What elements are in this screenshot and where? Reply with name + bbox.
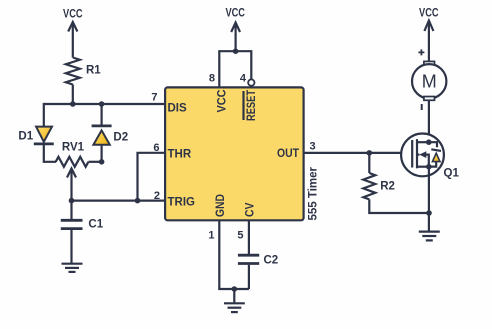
wire RV1 right to D2 — [88, 161, 101, 163]
svg-text:OUT: OUT — [277, 148, 299, 160]
wire TRIG net (wiper to pin 2) — [72, 200, 166, 202]
op 555 timer U1 body — [165, 87, 304, 220]
wire D2 bottom lead — [100, 145, 102, 162]
junction wiper/C1/TRIG — [69, 198, 75, 204]
svg-text:VCC: VCC — [419, 8, 439, 20]
svg-text:7: 7 — [151, 92, 157, 104]
transistor Q1 label — [444, 168, 460, 180]
motor M1 top terminal — [424, 61, 435, 65]
transistor Q1 source branch — [417, 166, 429, 168]
pin 5 CV name (rotated) — [245, 202, 257, 217]
svg-text:4: 4 — [240, 73, 247, 85]
resistor R1 label — [86, 65, 101, 77]
transistor Q1 body diode triangle — [432, 153, 440, 161]
motor plus sign — [418, 49, 424, 55]
potentiometer RV1 label — [62, 142, 85, 154]
wire motor to Q1 drain — [428, 100, 430, 142]
transistor Q1 gate bar — [411, 140, 413, 168]
junction R2/source net — [426, 210, 432, 216]
wire R2 bottom to source net — [369, 199, 429, 213]
wire R1 bottom to node — [72, 85, 74, 105]
diode D2 label — [113, 132, 128, 144]
svg-text:D2: D2 — [113, 132, 128, 144]
resistor R1 body — [66, 58, 80, 85]
pin 1 number label — [208, 230, 214, 242]
junction OUT/R2 — [367, 150, 373, 156]
svg-text:RESET: RESET — [246, 90, 258, 121]
pin 1 GND name (rotated) — [215, 194, 227, 217]
wire D2 top lead — [100, 104, 102, 125]
svg-text:D1: D1 — [18, 131, 33, 143]
svg-text:C1: C1 — [88, 219, 103, 231]
svg-text:8: 8 — [209, 73, 215, 85]
wire VCC to pins 8 and 4 — [219, 51, 251, 87]
motor minus sign — [421, 104, 423, 110]
potentiometer RV1 wiper arrow — [67, 169, 76, 201]
pin 4 inversion bubble — [248, 79, 254, 85]
svg-text:R1: R1 — [86, 65, 101, 77]
power flag VCC (top center) label — [225, 8, 245, 20]
power flag VCC (left rail) label — [63, 9, 83, 21]
svg-text:555 Timer: 555 Timer — [308, 166, 320, 220]
junction RV1/D2 — [99, 159, 105, 165]
svg-text:VCC: VCC — [63, 9, 83, 21]
wire OUT net (pin 3 to gate, through R2 node) — [304, 152, 413, 154]
transistor Q1 body diode top lead — [429, 142, 437, 147]
svg-text:R2: R2 — [380, 181, 395, 193]
capacitor C1 — [61, 220, 83, 228]
wire D1 to RV1 — [44, 144, 56, 162]
svg-text:3: 3 — [310, 141, 316, 153]
svg-text:VCC: VCC — [217, 90, 229, 113]
diode D2 — [92, 126, 112, 145]
svg-text:VCC: VCC — [225, 8, 245, 20]
junction THR/TRIG — [135, 198, 141, 204]
junction VCC arrow/pin8/pin4 — [233, 48, 239, 54]
junction D2/top net — [99, 101, 105, 107]
pin 6 THR name — [168, 149, 192, 161]
diode D1 — [34, 127, 54, 144]
pin 4 number label — [240, 73, 247, 85]
ground (left, under C1) — [62, 264, 83, 272]
junction gnd net — [232, 286, 238, 292]
svg-text:DIS: DIS — [168, 103, 188, 115]
power flag VCC (right rail) label — [419, 8, 439, 20]
svg-text:6: 6 — [153, 142, 159, 154]
svg-text:1: 1 — [208, 230, 214, 242]
svg-text:RV1: RV1 — [62, 142, 85, 154]
capacitor C2 label — [264, 255, 279, 267]
transistor Q1 body diode cathode bar — [431, 149, 441, 151]
pin 8 VCC name (rotated) — [217, 90, 229, 113]
junction Q1 drain dot — [426, 139, 432, 145]
svg-text:M: M — [422, 71, 437, 91]
svg-text:TRIG: TRIG — [168, 197, 196, 209]
capacitor C2 — [238, 255, 259, 263]
transistor Q1 body circle — [401, 134, 444, 177]
resistor R2 body — [363, 173, 375, 199]
junction Q1 source dot — [426, 164, 432, 170]
svg-text:5: 5 — [237, 230, 243, 242]
pin 2 TRIG name — [168, 197, 196, 209]
svg-text:2: 2 — [154, 190, 160, 202]
junction R1/top net — [70, 101, 76, 107]
motor M1 bottom terminal — [424, 97, 435, 101]
pin 6 number label — [153, 142, 159, 154]
wire TRIG junction down to C1 — [70, 201, 72, 219]
wire gnd stem — [233, 289, 235, 303]
power flag VCC (right rail) arrow — [424, 21, 433, 62]
wire R2 top lead — [368, 153, 370, 173]
pin 8 number label — [209, 73, 215, 85]
svg-text:C2: C2 — [264, 255, 279, 267]
transistor Q1 body diode bottom lead — [429, 162, 436, 167]
ground (center, under 555) — [224, 303, 245, 312]
pin 2 number label — [154, 190, 160, 202]
wire top net down to D1 — [43, 103, 45, 127]
svg-text:CV: CV — [245, 202, 257, 217]
svg-text:Q1: Q1 — [444, 168, 460, 180]
svg-text:GND: GND — [215, 194, 227, 217]
wire main top net (node to pin 7 DIS) — [44, 103, 165, 105]
pin 7 DIS name — [168, 103, 188, 115]
capacitor C1 label — [88, 219, 103, 231]
wire THR branch — [138, 153, 166, 201]
wire pin 1 GND down — [219, 221, 249, 289]
transistor Q1 body arrow — [418, 151, 429, 167]
wire Q1 source to ground — [428, 167, 430, 232]
wire C1 to ground — [70, 230, 72, 264]
resistor R2 label — [380, 181, 395, 193]
wire pin 5 CV down to C2 — [248, 221, 250, 254]
power flag VCC (left rail) arrow — [68, 22, 77, 58]
ground (right, under Q1) — [419, 232, 440, 241]
pin 3 OUT name — [277, 148, 299, 160]
transistor Q1 drain branch — [417, 141, 429, 143]
pin 3 number label — [310, 141, 316, 153]
transistor Q1 channel bar — [416, 139, 418, 168]
diode D1 label — [18, 131, 33, 143]
wire C2 to gnd net — [248, 265, 250, 289]
svg-text:THR: THR — [168, 149, 192, 161]
pin 5 number label — [237, 230, 243, 242]
potentiometer RV1 body — [56, 157, 89, 167]
power flag VCC (top center) arrow — [231, 23, 240, 52]
555 timer label (rotated) — [308, 166, 320, 220]
motor M1 body — [412, 64, 446, 98]
pin 4 RESET name (rotated) with overbar — [244, 90, 259, 121]
pin 7 number label — [151, 92, 157, 104]
